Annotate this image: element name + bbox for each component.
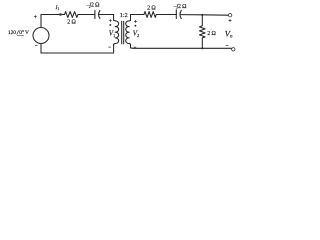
polarity dot primary <box>109 24 111 26</box>
wire top left <box>41 14 65 16</box>
plus sign V2 <box>134 20 137 23</box>
minus sign source <box>35 44 38 46</box>
svg-text:1:2: 1:2 <box>120 12 128 19</box>
wire C1 to transformer <box>99 14 114 16</box>
svg-text:120: 120 <box>8 30 16 36</box>
capacitor C1 curved plate <box>99 10 100 18</box>
plus sign V1 <box>109 19 112 22</box>
junction node bottom <box>201 47 203 49</box>
svg-text:–j2 Ω: –j2 Ω <box>173 4 187 10</box>
transformer T1 secondary coil V2 <box>126 21 129 44</box>
wire R1 to C1 <box>78 14 95 16</box>
transformer core line 1 <box>121 21 123 44</box>
svg-text:2 Ω: 2 Ω <box>207 31 216 37</box>
resistor R1 zigzag <box>65 12 78 18</box>
svg-text:V1: V1 <box>109 30 115 38</box>
capacitor C2 curved plate <box>180 10 181 18</box>
resistor R3 vertical <box>200 15 206 49</box>
minus sign V1 <box>108 46 111 48</box>
transformer T1 primary coil V1 <box>115 21 118 44</box>
svg-text:I1: I1 <box>55 5 60 11</box>
transformer core line 2 <box>123 21 125 44</box>
wire source bottom lead <box>40 44 42 54</box>
plus sign Vo <box>229 19 232 22</box>
transformer T1 left lead top <box>114 15 116 21</box>
capacitor C2 flat plate <box>175 10 177 18</box>
transformer T1 left lead bottom <box>114 44 116 54</box>
transformer T1 right lead top <box>129 15 130 21</box>
wire C2 to terminal <box>180 14 228 17</box>
svg-text:–j2 Ω: –j2 Ω <box>86 2 100 8</box>
wire R2 to C2 <box>156 14 176 16</box>
svg-text:V: V <box>25 30 29 36</box>
label source value 120 angle 0 V <box>8 29 29 36</box>
svg-text:Vo: Vo <box>225 30 233 40</box>
current arrow I1 head <box>60 13 64 16</box>
minus sign Vo <box>226 44 229 46</box>
junction node top <box>201 14 203 16</box>
transformer T1 right lead bottom <box>129 44 130 48</box>
voltage source VS circle <box>33 28 49 44</box>
svg-text:V2: V2 <box>133 30 139 38</box>
capacitor C1 flat plate <box>94 10 96 18</box>
terminal top open circle <box>228 14 231 17</box>
wire bottom left <box>41 52 114 54</box>
minus sign V2 <box>134 46 137 48</box>
polarity dot secondary <box>134 25 136 27</box>
terminal bottom open circle <box>232 48 235 51</box>
plus sign source <box>34 15 37 18</box>
resistor R2 zigzag <box>144 12 156 18</box>
svg-text:2 Ω: 2 Ω <box>67 19 76 25</box>
wire top right from transformer <box>130 14 144 16</box>
wire source top lead <box>40 15 42 28</box>
svg-text:2 Ω: 2 Ω <box>147 5 156 11</box>
wire bottom right <box>130 47 231 49</box>
